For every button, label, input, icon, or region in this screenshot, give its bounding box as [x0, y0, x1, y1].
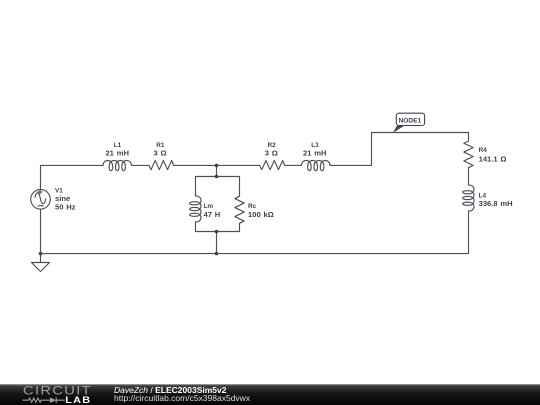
svg-text:21 mH: 21 mH	[105, 149, 129, 158]
svg-text:50 Hz: 50 Hz	[55, 203, 76, 212]
svg-text:3 Ω: 3 Ω	[153, 149, 166, 158]
wire parallel box rails	[196, 177, 240, 232]
footer bar	[0, 384, 540, 405]
svg-text:21 mH: 21 mH	[303, 149, 327, 158]
label L1 value	[105, 142, 129, 158]
svg-text:R4: R4	[479, 147, 488, 154]
label R4 value	[479, 147, 507, 163]
label R1 value	[153, 142, 166, 158]
footer CircuitLab logo	[23, 384, 93, 405]
svg-text:336.8 mH: 336.8 mH	[479, 199, 513, 208]
label V1 value	[55, 187, 76, 211]
resistor Rc	[235, 196, 244, 223]
wire right vertical	[468, 133, 470, 254]
label Lm value	[204, 203, 221, 219]
svg-text:3 Ω: 3 Ω	[265, 149, 278, 158]
wire middle branch verticals	[216, 165, 218, 253]
label R2 value	[265, 142, 278, 158]
wire top rail segments	[41, 164, 372, 166]
footer url text	[114, 393, 251, 403]
svg-text:141.1 Ω: 141.1 Ω	[479, 155, 507, 164]
svg-text:http://circuitlab.com/c5x398ax: http://circuitlab.com/c5x398ax5dvwx	[114, 393, 251, 403]
inductor Lm	[190, 196, 201, 222]
label L4 value	[479, 193, 513, 209]
ground	[32, 254, 50, 272]
node flag NODE1	[393, 113, 425, 133]
svg-text:LAB: LAB	[65, 395, 91, 405]
wire bottom rail	[41, 253, 469, 255]
resistor R1	[149, 161, 174, 170]
inductor L1	[103, 160, 132, 170]
label Rc value	[248, 203, 274, 219]
svg-text:100 kΩ: 100 kΩ	[248, 210, 274, 219]
resistor R2	[260, 161, 285, 170]
inductor L4	[463, 185, 474, 211]
svg-text:47 H: 47 H	[204, 210, 221, 219]
wire jog up to node	[372, 133, 469, 166]
wire left vertical (source branch)	[40, 165, 42, 253]
resistor R4	[464, 141, 473, 168]
junction node dots	[39, 164, 219, 256]
footer title text	[114, 385, 227, 395]
label L3 value	[303, 142, 327, 158]
svg-text:NODE1: NODE1	[399, 117, 422, 124]
voltage source V1	[31, 190, 51, 210]
inductor L3	[302, 160, 331, 170]
